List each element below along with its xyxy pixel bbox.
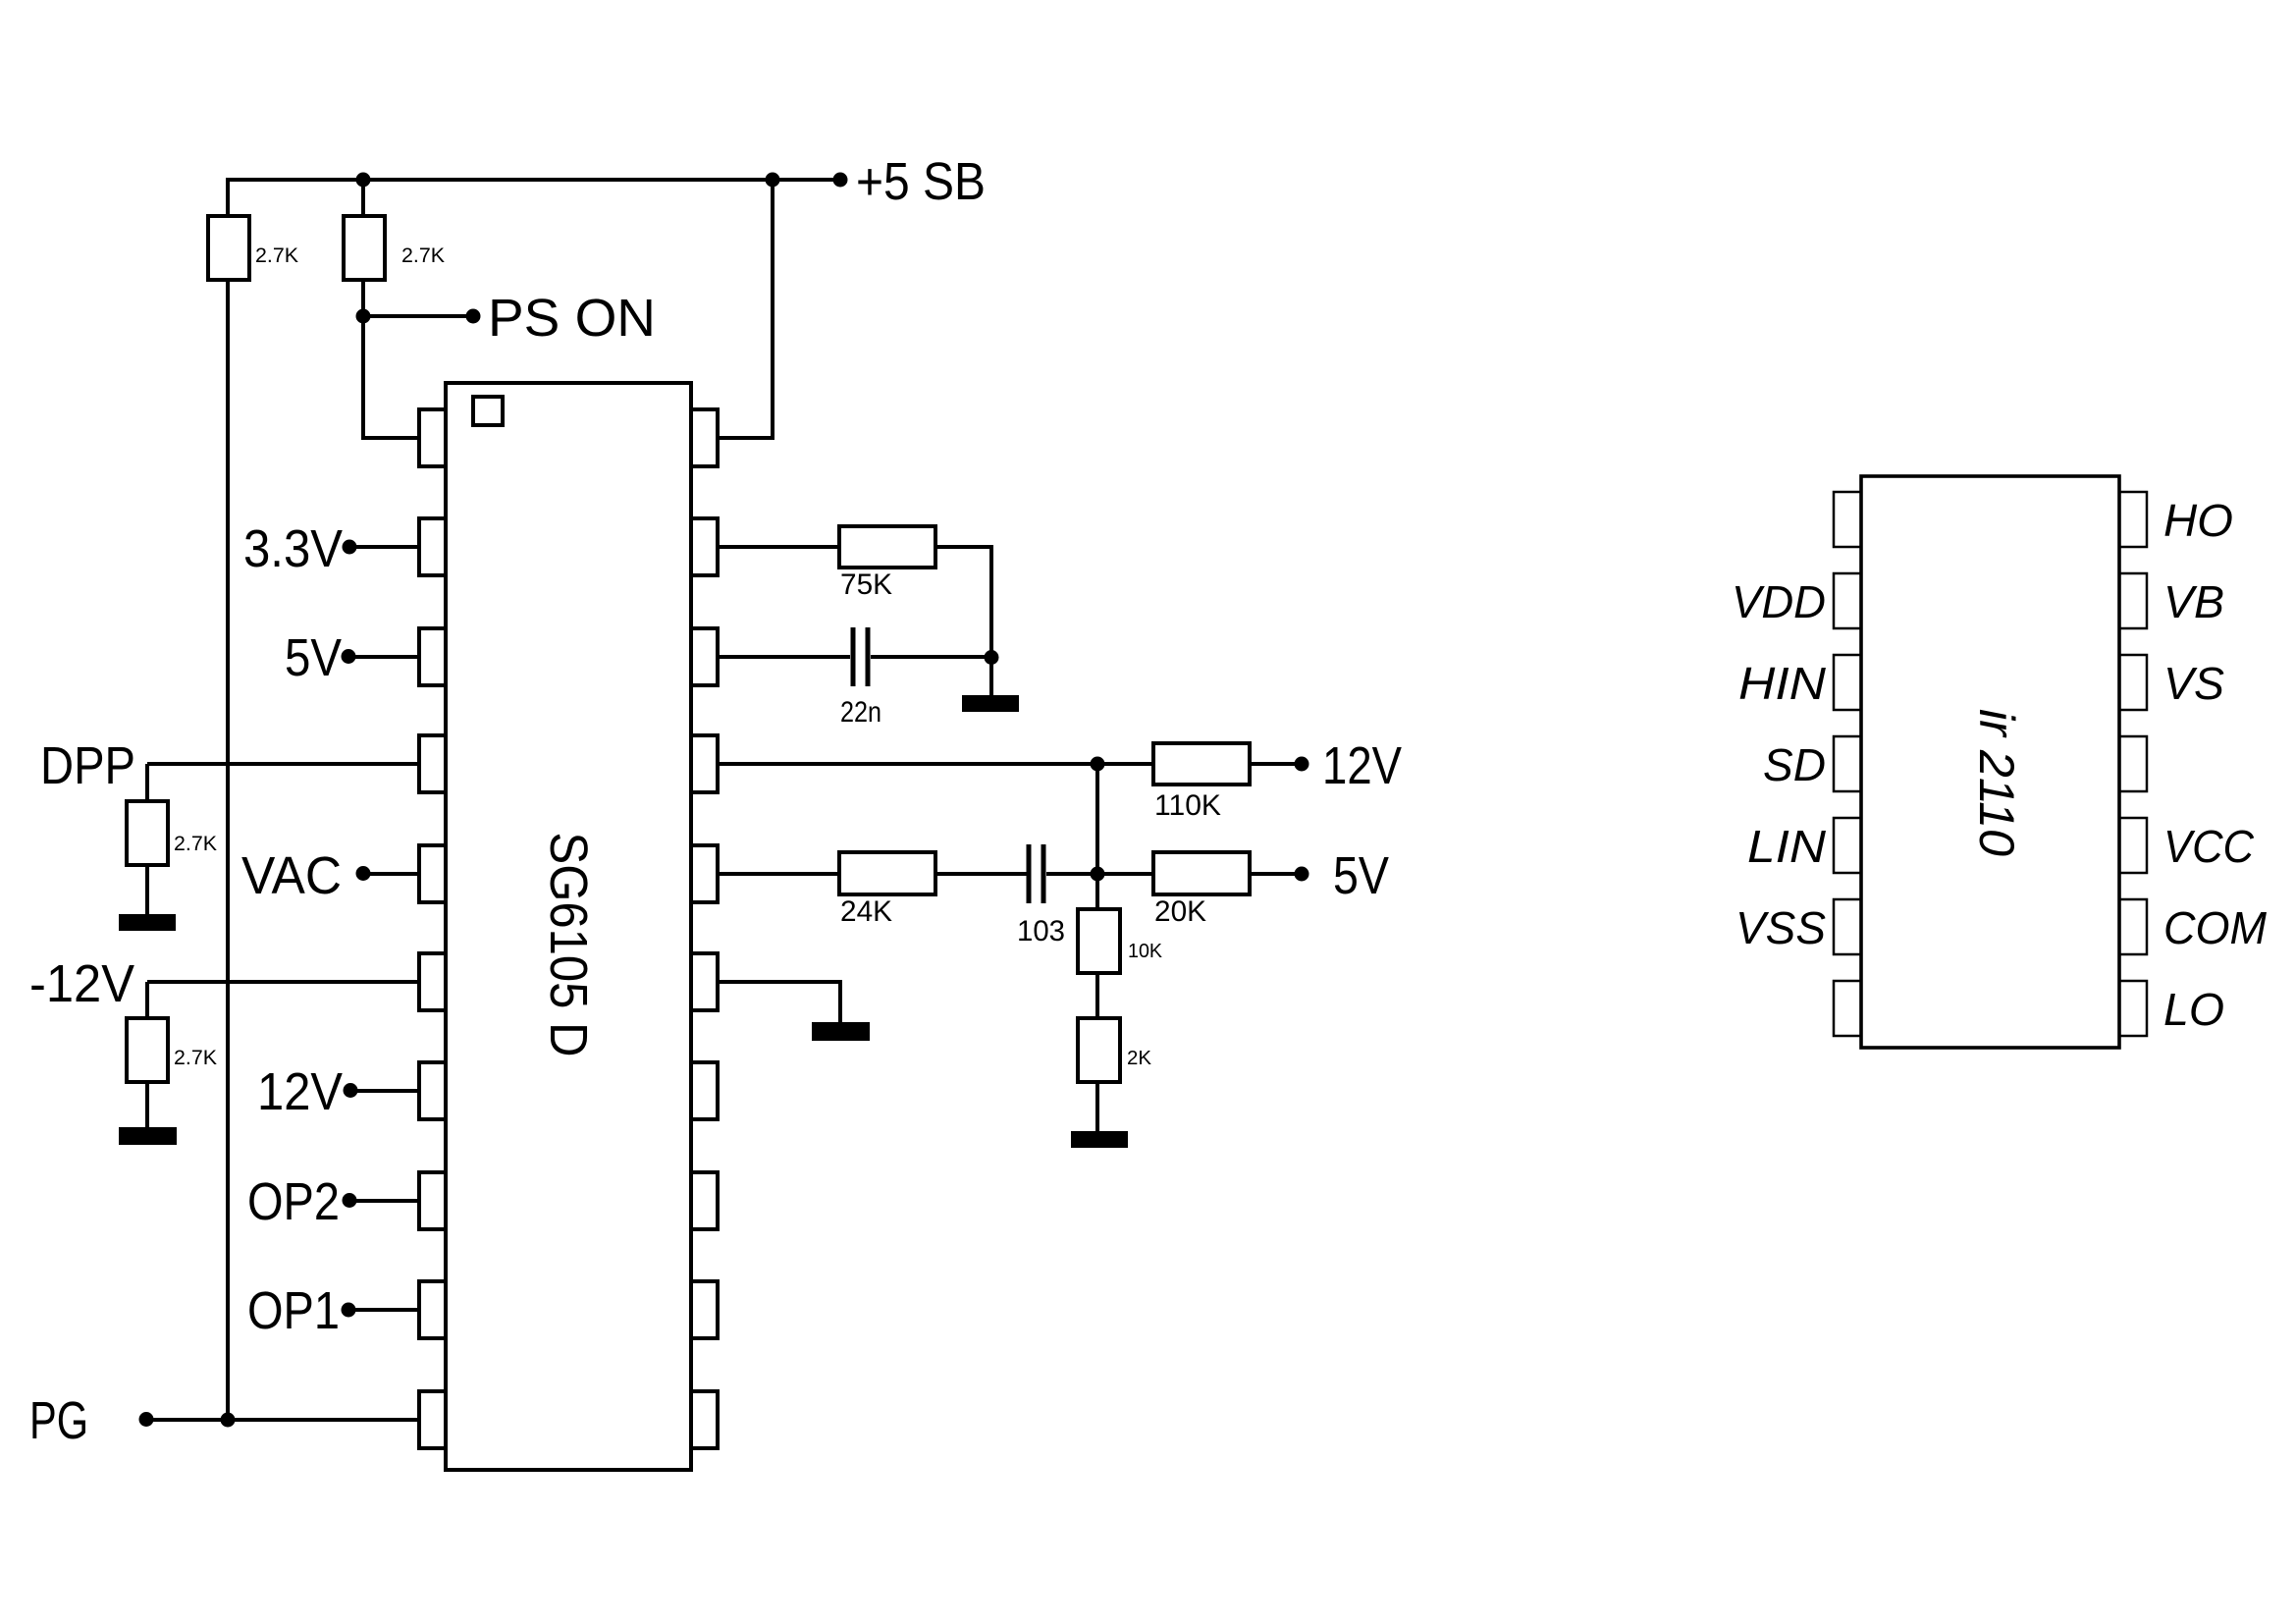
wire left rail lower segment <box>226 280 230 1420</box>
resistor R10 2K <box>1078 1018 1120 1082</box>
resistor R9 10K <box>1078 909 1120 973</box>
pin R10 <box>691 1391 718 1448</box>
ground G4 (pin 6 right) <box>812 1022 870 1041</box>
IC U2 ir2110 body <box>1861 476 2119 1048</box>
pin U2-L7 <box>1834 981 1861 1036</box>
node rail-R2 junction <box>356 173 371 188</box>
pin OP2(L8) <box>419 1172 446 1229</box>
wire node to 20K <box>1097 872 1153 876</box>
wire VAC to pin 5 <box>363 872 419 876</box>
wire PG to pin 10 <box>146 1418 419 1422</box>
svg-text:HO: HO <box>2163 495 2233 546</box>
U2 right pin boxes <box>2119 492 2147 1036</box>
node PS ON terminal <box>466 309 481 324</box>
pin VSS <box>1834 899 1861 954</box>
ground G2 (-12V pulldown) <box>119 1127 177 1145</box>
svg-text:DPP: DPP <box>40 736 135 795</box>
wire node to ground G3 <box>989 657 993 697</box>
capacitor C2 103 <box>1027 844 1032 903</box>
wire R3 to ground <box>145 865 149 916</box>
svg-text:SG6105 D: SG6105 D <box>539 833 598 1057</box>
node 12V terminal left <box>344 1083 358 1098</box>
wire node to 110K <box>1097 762 1153 766</box>
pin 5V(L3) <box>419 628 446 685</box>
pin COM <box>2119 899 2147 954</box>
ground G5 (2K bottom) <box>1071 1131 1128 1148</box>
svg-text:12V: 12V <box>257 1062 343 1121</box>
svg-text:2.7K: 2.7K <box>401 244 445 267</box>
wire node down to 10K <box>1095 874 1099 911</box>
node 3.3V terminal <box>343 540 357 555</box>
pin R4 <box>691 735 718 792</box>
node OP2 terminal <box>343 1193 357 1208</box>
svg-text:2K: 2K <box>1127 1048 1152 1069</box>
pin 1 index square <box>473 397 503 425</box>
U2 left pin boxes <box>1834 492 1861 1036</box>
U1 left pin boxes <box>419 409 446 1448</box>
svg-text:22n: 22n <box>840 696 881 729</box>
svg-text:+5 SB: +5 SB <box>856 152 986 211</box>
svg-text:OP1: OP1 <box>247 1281 340 1340</box>
node 12V terminal right <box>1295 757 1309 772</box>
capacitor C1 22n <box>851 627 856 686</box>
wire R2 bottom to PS ON node and to pin 1 <box>363 280 419 438</box>
IC U1 SG6105 D body <box>446 383 691 1470</box>
pin LIN <box>1834 818 1861 873</box>
wire 110K to 12V terminal <box>1250 762 1302 766</box>
wire 3.3V to pin 2 <box>349 545 419 549</box>
pin VAC(L5) <box>419 845 446 902</box>
node 20K junction <box>1091 867 1105 882</box>
svg-text:20K: 20K <box>1154 895 1206 928</box>
wire 12V to pin 7 <box>350 1089 419 1093</box>
resistor R3 2.7K <box>127 801 168 865</box>
ground G1 (DPP pulldown) <box>119 914 176 931</box>
svg-text:LO: LO <box>2163 984 2224 1035</box>
pin R7 <box>691 1062 718 1119</box>
wire OP2 to pin 8 <box>349 1199 419 1203</box>
resistor R8 20K <box>1153 852 1250 894</box>
node 5V terminal right <box>1295 867 1309 882</box>
wire 5V to pin 3 <box>348 655 419 659</box>
wire DPP to pin 4 <box>147 762 419 766</box>
pin OP1(L9) <box>419 1281 446 1338</box>
pin R1 <box>691 409 718 466</box>
junction and terminal dots <box>139 173 1309 1428</box>
wire pin to 110K node (12V row) <box>718 762 1097 766</box>
node OP1 terminal <box>342 1303 356 1318</box>
pin R9 <box>691 1281 718 1338</box>
pin SD <box>1834 736 1861 791</box>
wire left rail upper segment <box>226 178 230 218</box>
pin R5 <box>691 845 718 902</box>
U1 right pin boxes <box>691 409 718 1448</box>
svg-text:LIN: LIN <box>1747 821 1827 872</box>
pin U2-R4 <box>2119 736 2147 791</box>
resistor R4 2.7K <box>127 1018 168 1082</box>
svg-text:75K: 75K <box>840 568 892 601</box>
node 75K-22n junction <box>985 650 999 665</box>
svg-text:2.7K: 2.7K <box>174 1047 217 1069</box>
wire pin to 75K <box>718 545 839 549</box>
svg-text:VB: VB <box>2163 576 2224 627</box>
wire right pin 1 to +5SB rail <box>718 178 773 438</box>
pin HO <box>2119 492 2147 547</box>
wire 24K to 103 <box>935 872 1027 876</box>
pin R6 <box>691 953 718 1010</box>
wire 103 to node <box>1046 872 1097 876</box>
wire 10K to 2K <box>1095 973 1099 1020</box>
ground G3 (22n node) <box>962 695 1019 712</box>
pin PG(L10) <box>419 1391 446 1448</box>
pin -12V(L6) <box>419 953 446 1010</box>
svg-text:VAC: VAC <box>241 846 342 905</box>
labels: net names <box>29 152 1402 1450</box>
pin 3.3V(L2) <box>419 518 446 575</box>
wire OP1 to pin 9 <box>348 1308 419 1312</box>
pin VB <box>2119 573 2147 628</box>
wire pin to 22n <box>718 655 850 659</box>
svg-text:3.3V: 3.3V <box>243 519 343 578</box>
svg-text:PS ON: PS ON <box>488 289 656 348</box>
svg-text:2.7K: 2.7K <box>255 244 298 267</box>
wire R4 to ground <box>145 1082 149 1129</box>
resistor R2 2.7K <box>344 216 385 280</box>
wire R2 drop from rail <box>361 180 365 218</box>
resistor R5 75K <box>839 526 935 568</box>
wire pin to 24K <box>718 872 839 876</box>
node rail-pin1R junction <box>766 173 780 188</box>
resistor R7 24K <box>839 852 935 894</box>
pin R2 <box>691 518 718 575</box>
svg-text:110K: 110K <box>1154 789 1221 822</box>
svg-text:5V: 5V <box>285 628 342 687</box>
pin VDD <box>1834 573 1861 628</box>
svg-text:10K: 10K <box>1128 941 1163 962</box>
pin VCC <box>2119 818 2147 873</box>
wire PS ON stub <box>363 314 473 318</box>
svg-text:24K: 24K <box>840 895 892 928</box>
svg-text:OP2: OP2 <box>247 1172 340 1231</box>
pin VS <box>2119 655 2147 710</box>
wire -12V pulldown stub <box>145 982 149 1020</box>
wire right pin 6 to ground G4 <box>718 982 840 1024</box>
pin LO <box>2119 981 2147 1036</box>
pin PSON(L1) <box>419 409 446 466</box>
resistor R1 2.7K <box>208 216 249 280</box>
svg-text:COM: COM <box>2163 902 2268 953</box>
node +5SB terminal <box>833 173 848 188</box>
svg-text:2.7K: 2.7K <box>174 833 217 855</box>
node PG rail junction <box>221 1413 236 1428</box>
resistor R6 110K <box>1153 743 1250 785</box>
svg-text:VS: VS <box>2163 658 2224 709</box>
svg-text:SD: SD <box>1763 739 1826 790</box>
wire node column 12V to 5V row <box>1095 764 1099 874</box>
labels: component values <box>174 244 445 1069</box>
pin DPP(L4) <box>419 735 446 792</box>
svg-text:VCC: VCC <box>2163 821 2255 872</box>
svg-text:HIN: HIN <box>1738 658 1827 709</box>
svg-text:PG: PG <box>29 1391 88 1450</box>
pin 12V(L7) <box>419 1062 446 1119</box>
node PG terminal <box>139 1412 154 1427</box>
pin R3 <box>691 628 718 685</box>
svg-text:5V: 5V <box>1333 846 1389 905</box>
wire 2K to ground G5 <box>1095 1082 1099 1133</box>
wire DPP pulldown stub <box>145 764 149 803</box>
pin R8 <box>691 1172 718 1229</box>
svg-text:12V: 12V <box>1322 736 1402 795</box>
svg-text:VDD: VDD <box>1732 576 1826 627</box>
node VAC terminal <box>356 866 371 881</box>
pin U2-L1 <box>1834 492 1861 547</box>
svg-text:-12V: -12V <box>29 954 134 1013</box>
U2 pin labels <box>1732 495 2268 1035</box>
node 110K junction <box>1091 757 1105 772</box>
svg-text:103: 103 <box>1017 915 1065 947</box>
wire top +5SB rail <box>228 178 840 182</box>
svg-text:ir 2110: ir 2110 <box>1969 709 2024 856</box>
svg-text:VSS: VSS <box>1735 902 1826 953</box>
wire -12V to pin 6 <box>147 980 419 984</box>
node 5V terminal <box>342 649 356 664</box>
wire 22n to node <box>871 655 991 659</box>
pin HIN <box>1834 655 1861 710</box>
wire 20K to 5V terminal <box>1250 872 1302 876</box>
wire 75K to corner node <box>935 547 991 657</box>
node PS ON junction <box>356 309 371 324</box>
